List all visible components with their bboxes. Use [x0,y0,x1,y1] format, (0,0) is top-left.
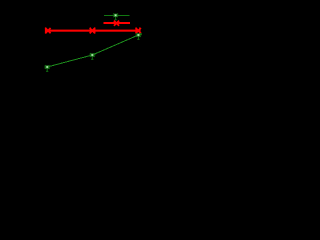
red legend sample line [103,22,130,24]
green series polyline [47,34,142,67]
red X marker point 3 [136,28,141,33]
green marker point 1 [44,65,50,71]
background [0,0,154,98]
red error cap left of point 3 [135,27,136,33]
red error cap right of point 3 [139,27,140,33]
red series main line [45,30,140,32]
green marker point 3 [135,33,141,39]
red X marker point 1 [45,28,50,33]
red legend X marker [114,21,119,26]
green legend sample line [104,15,129,16]
red error cap right of point 2 [94,27,95,33]
red error cap left of point 1 [45,27,46,33]
green legend marker [113,14,119,20]
red X marker point 2 [90,28,95,33]
red error cap left of point 2 [90,27,91,33]
green marker point 2 [89,53,95,59]
